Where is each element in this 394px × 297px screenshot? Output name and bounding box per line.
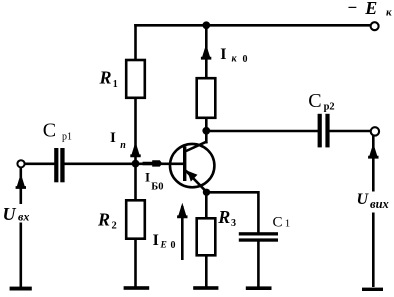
arrow Uvyx (368, 143, 378, 158)
wire R1 bottom to base junction (134, 98, 137, 165)
svg-text:вх: вх (18, 209, 29, 223)
resistor collector (unlabeled) (197, 78, 216, 118)
svg-text:E: E (364, 0, 377, 18)
ground bar under R2 (124, 286, 150, 290)
svg-text:р2: р2 (324, 102, 335, 113)
transistor VT circle (170, 144, 214, 187)
wire emitter down to R3 (205, 192, 208, 218)
transistor base bar (183, 146, 186, 181)
svg-text:п: п (120, 140, 126, 151)
svg-text:2: 2 (112, 221, 117, 232)
svg-text:R: R (99, 68, 112, 88)
terminal output circle (371, 127, 379, 135)
transistor collector slant (185, 141, 207, 151)
svg-text:вих: вих (370, 197, 389, 211)
node dot base junction (132, 160, 140, 168)
node dot emitter (203, 189, 210, 196)
svg-text:р1: р1 (62, 132, 72, 143)
arrow IB0 on base wire (143, 160, 163, 166)
svg-text:−: − (348, 0, 358, 17)
capacitor C1 plates (239, 232, 278, 242)
node dot collector output (202, 127, 210, 135)
node dot top rail / collector (202, 21, 210, 29)
wire R2 bottom to ground bar (134, 239, 137, 287)
wire Uvx line (19, 168, 22, 204)
svg-text:C: C (273, 214, 283, 230)
svg-text:I: I (110, 130, 116, 146)
wire collector branch from rail to resistor (205, 24, 208, 78)
svg-text:U: U (3, 204, 17, 224)
capacitor Cp2 plates (318, 114, 330, 148)
arrow IE0 (177, 203, 187, 218)
wire C1 branch down to top plate (257, 191, 260, 233)
svg-text:C: C (308, 90, 321, 112)
wire input terminal to Cp1 (25, 163, 55, 166)
ground bar under Uvx (10, 287, 32, 291)
wire Cp2 to output terminal (329, 130, 371, 133)
transistor emitter slant (186, 171, 207, 193)
wire Cp1 to transistor base (64, 163, 184, 166)
svg-text:I: I (220, 46, 226, 63)
resistor R2 (126, 200, 145, 238)
svg-text:1: 1 (285, 218, 291, 230)
wire R2 branch top (134, 164, 137, 201)
wire Uvyx line (372, 136, 375, 192)
resistor R1 (126, 60, 145, 98)
svg-text:C: C (43, 120, 56, 142)
arrow In (divider current) (130, 142, 140, 157)
svg-text:R: R (97, 209, 110, 229)
wire C1 bottom plate to ground bar (257, 241, 260, 287)
ground bar under R3 (193, 286, 218, 290)
svg-text:I: I (145, 170, 150, 185)
wire top rail -Ek (134, 24, 371, 27)
arrow Uvx (16, 174, 26, 189)
svg-text:3: 3 (231, 218, 236, 229)
svg-text:I: I (153, 232, 159, 249)
wire emitter node to C1 branch (206, 191, 258, 194)
svg-text:R: R (217, 207, 230, 227)
terminal input circle (17, 160, 24, 167)
resistor R3 (197, 218, 216, 255)
svg-text:к: к (386, 7, 392, 19)
wire collector node to Cp2 (206, 130, 318, 133)
svg-text:0: 0 (243, 54, 248, 65)
svg-text:Е: Е (160, 241, 167, 251)
svg-text:Б0: Б0 (151, 181, 163, 192)
svg-text:U: U (357, 191, 370, 208)
wire IE0 arrow shaft (181, 206, 184, 260)
wire R1 branch top (134, 24, 137, 60)
wire R3 bottom to ground bar (205, 256, 208, 288)
svg-text:1: 1 (113, 79, 118, 90)
svg-text:0: 0 (171, 240, 176, 251)
wire collector resistor to transistor (205, 118, 208, 144)
terminal -Ek circle (371, 22, 379, 30)
transistor emitter arrow (PNP, points to base) (187, 171, 197, 182)
capacitor Cp1 plates (54, 148, 64, 182)
arrow IK0 (201, 44, 211, 59)
ground bar under C1 (246, 286, 272, 290)
ground bar under Uvyx (362, 288, 383, 291)
